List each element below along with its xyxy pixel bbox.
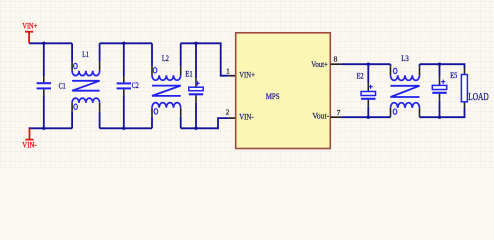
svg-text:E1: E1 bbox=[185, 69, 193, 79]
svg-text:2: 2 bbox=[226, 107, 230, 116]
svg-text:Vout-: Vout- bbox=[312, 110, 329, 120]
svg-text:VIN-: VIN- bbox=[22, 140, 37, 149]
svg-text:L2: L2 bbox=[162, 53, 169, 63]
svg-text:LOAD: LOAD bbox=[468, 92, 489, 103]
svg-text:MPS: MPS bbox=[266, 91, 280, 101]
svg-text:C1: C1 bbox=[59, 80, 66, 90]
svg-text:8: 8 bbox=[334, 54, 338, 63]
svg-text:L3: L3 bbox=[401, 53, 409, 63]
svg-text:VIN+: VIN+ bbox=[22, 22, 37, 31]
svg-text:C2: C2 bbox=[132, 80, 139, 90]
svg-text:7: 7 bbox=[337, 108, 341, 117]
svg-text:L1: L1 bbox=[82, 49, 89, 59]
svg-text:VIN+: VIN+ bbox=[239, 69, 255, 79]
svg-text:E5: E5 bbox=[450, 70, 457, 80]
svg-text:E2: E2 bbox=[357, 70, 364, 80]
svg-text:Vout+: Vout+ bbox=[311, 59, 328, 69]
svg-text:1: 1 bbox=[226, 66, 230, 75]
svg-text:VIN-: VIN- bbox=[239, 111, 253, 121]
